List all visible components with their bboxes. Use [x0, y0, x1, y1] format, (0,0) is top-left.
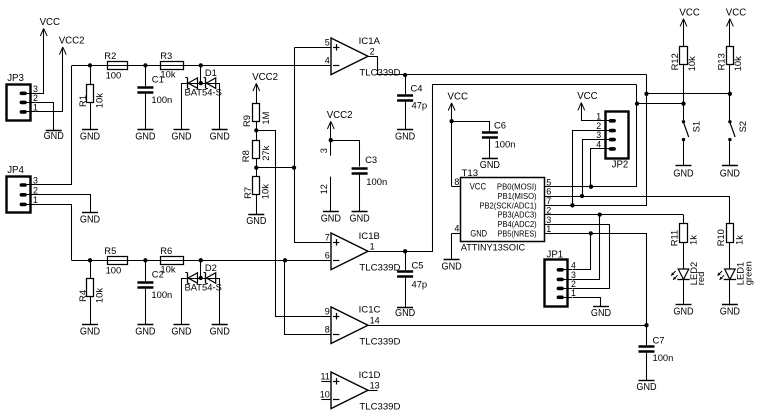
svg-text:R12: R12 — [669, 53, 680, 70]
svg-text:BAT54-S: BAT54-S — [185, 282, 222, 293]
svg-text:VCC2: VCC2 — [59, 36, 85, 47]
svg-text:R2: R2 — [104, 50, 116, 61]
svg-text:11: 11 — [320, 372, 329, 382]
svg-text:GND: GND — [442, 262, 462, 273]
svg-text:GND: GND — [720, 306, 740, 317]
svg-text:JP4: JP4 — [7, 165, 24, 176]
svg-text:47p: 47p — [412, 100, 428, 111]
svg-text:VCC: VCC — [577, 91, 597, 102]
svg-text:2: 2 — [33, 185, 38, 195]
svg-text:JP2: JP2 — [612, 160, 629, 171]
svg-text:JP1: JP1 — [547, 249, 564, 260]
svg-text:1: 1 — [596, 111, 601, 121]
svg-text:1: 1 — [546, 224, 551, 234]
svg-text:VCC: VCC — [448, 91, 468, 102]
svg-text:4: 4 — [571, 260, 576, 270]
svg-text:D1: D1 — [205, 67, 217, 78]
svg-text:green: green — [742, 261, 753, 285]
svg-text:27k: 27k — [260, 145, 271, 160]
svg-text:100: 100 — [106, 264, 122, 275]
svg-text:12: 12 — [319, 184, 329, 194]
svg-text:GND: GND — [395, 131, 415, 142]
svg-text:GND: GND — [470, 228, 487, 238]
svg-text:100n: 100n — [495, 138, 516, 149]
svg-text:1M: 1M — [260, 111, 271, 124]
svg-text:R4: R4 — [77, 290, 88, 302]
svg-text:GND: GND — [395, 308, 415, 319]
svg-text:9: 9 — [325, 307, 330, 317]
svg-text:R11: R11 — [669, 230, 680, 247]
svg-text:R5: R5 — [104, 245, 116, 256]
svg-text:10k: 10k — [160, 69, 175, 80]
svg-text:R8: R8 — [240, 150, 251, 162]
svg-text:red: red — [695, 272, 706, 286]
svg-text:C3: C3 — [365, 154, 377, 165]
svg-text:D2: D2 — [205, 262, 217, 273]
svg-text:TLC339D: TLC339D — [359, 402, 400, 413]
svg-text:IC1A: IC1A — [359, 36, 381, 47]
svg-text:C4: C4 — [411, 82, 423, 93]
svg-text:GND: GND — [80, 131, 100, 142]
svg-text:PB3(ADC3): PB3(ADC3) — [498, 210, 537, 220]
svg-text:GND: GND — [171, 326, 191, 337]
svg-text:100n: 100n — [366, 176, 387, 187]
svg-text:5: 5 — [325, 38, 330, 48]
svg-text:GND: GND — [720, 168, 740, 179]
svg-text:10k: 10k — [260, 184, 271, 199]
svg-text:TLC339D: TLC339D — [359, 263, 400, 274]
svg-text:1: 1 — [370, 242, 375, 252]
svg-text:VCC: VCC — [726, 7, 746, 18]
svg-text:10k: 10k — [94, 93, 105, 108]
svg-text:7: 7 — [325, 233, 330, 243]
svg-text:8: 8 — [454, 177, 459, 187]
svg-text:4: 4 — [325, 56, 330, 66]
svg-text:10k: 10k — [686, 56, 697, 71]
svg-text:1: 1 — [33, 195, 38, 205]
svg-text:VCC: VCC — [40, 17, 60, 28]
svg-text:C5: C5 — [412, 260, 424, 271]
svg-text:GND: GND — [673, 168, 693, 179]
svg-text:GND: GND — [673, 306, 693, 317]
svg-text:TLC339D: TLC339D — [359, 68, 400, 79]
svg-text:10: 10 — [320, 390, 330, 400]
svg-text:1k: 1k — [734, 235, 745, 245]
svg-text:GND: GND — [210, 131, 230, 142]
svg-text:T13: T13 — [462, 168, 479, 179]
svg-text:14: 14 — [370, 316, 380, 326]
svg-text:6: 6 — [325, 251, 330, 261]
svg-text:100n: 100n — [151, 289, 172, 300]
svg-text:R7: R7 — [242, 187, 253, 199]
svg-text:47p: 47p — [412, 278, 428, 289]
svg-text:IC1C: IC1C — [359, 305, 381, 316]
svg-text:10k: 10k — [94, 288, 105, 303]
svg-text:IC1B: IC1B — [359, 231, 380, 242]
svg-text:1: 1 — [571, 288, 576, 298]
svg-text:4: 4 — [596, 139, 601, 149]
svg-text:2: 2 — [546, 205, 551, 215]
svg-text:GND: GND — [480, 160, 500, 171]
svg-text:GND: GND — [210, 326, 230, 337]
svg-text:100n: 100n — [653, 352, 674, 363]
svg-text:GND: GND — [44, 131, 64, 142]
svg-text:VCC: VCC — [679, 7, 699, 18]
svg-text:GND: GND — [636, 382, 656, 393]
svg-text:GND: GND — [321, 213, 341, 224]
svg-text:10k: 10k — [160, 264, 175, 275]
svg-text:GND: GND — [80, 326, 100, 337]
svg-text:8: 8 — [325, 325, 330, 335]
svg-text:C6: C6 — [494, 119, 506, 130]
svg-text:GND: GND — [171, 131, 191, 142]
svg-text:1: 1 — [33, 102, 38, 112]
svg-text:PB5(NRES): PB5(NRES) — [498, 228, 537, 238]
svg-text:3: 3 — [319, 148, 329, 153]
svg-text:VCC2: VCC2 — [327, 110, 353, 121]
svg-text:ATTINY13SOIC: ATTINY13SOIC — [461, 243, 525, 254]
svg-text:1k: 1k — [687, 235, 698, 245]
svg-text:C7: C7 — [653, 334, 665, 345]
svg-text:2: 2 — [33, 93, 38, 103]
svg-text:R10: R10 — [715, 229, 726, 246]
svg-text:R13: R13 — [715, 53, 726, 70]
svg-text:GND: GND — [591, 308, 611, 319]
svg-text:R1: R1 — [77, 95, 88, 107]
svg-text:VCC: VCC — [470, 181, 487, 191]
svg-text:R6: R6 — [160, 245, 172, 256]
svg-text:R3: R3 — [160, 50, 172, 61]
svg-text:4: 4 — [454, 224, 459, 234]
svg-text:13: 13 — [370, 381, 380, 391]
svg-text:JP3: JP3 — [7, 73, 24, 84]
svg-text:100: 100 — [106, 69, 122, 80]
svg-text:TLC339D: TLC339D — [359, 336, 400, 347]
svg-text:GND: GND — [80, 214, 100, 225]
svg-text:VCC2: VCC2 — [252, 72, 278, 83]
svg-text:2: 2 — [370, 47, 375, 57]
svg-text:IC1D: IC1D — [359, 370, 381, 381]
svg-text:S2: S2 — [737, 121, 748, 132]
svg-text:BAT54-S: BAT54-S — [185, 87, 222, 98]
svg-text:GND: GND — [246, 216, 266, 227]
svg-text:S1: S1 — [691, 121, 702, 132]
svg-text:GND: GND — [350, 213, 370, 224]
svg-text:GND: GND — [135, 131, 155, 142]
svg-text:100n: 100n — [151, 94, 172, 105]
svg-text:GND: GND — [135, 326, 155, 337]
svg-text:10k: 10k — [732, 56, 743, 71]
svg-text:R9: R9 — [241, 115, 252, 127]
